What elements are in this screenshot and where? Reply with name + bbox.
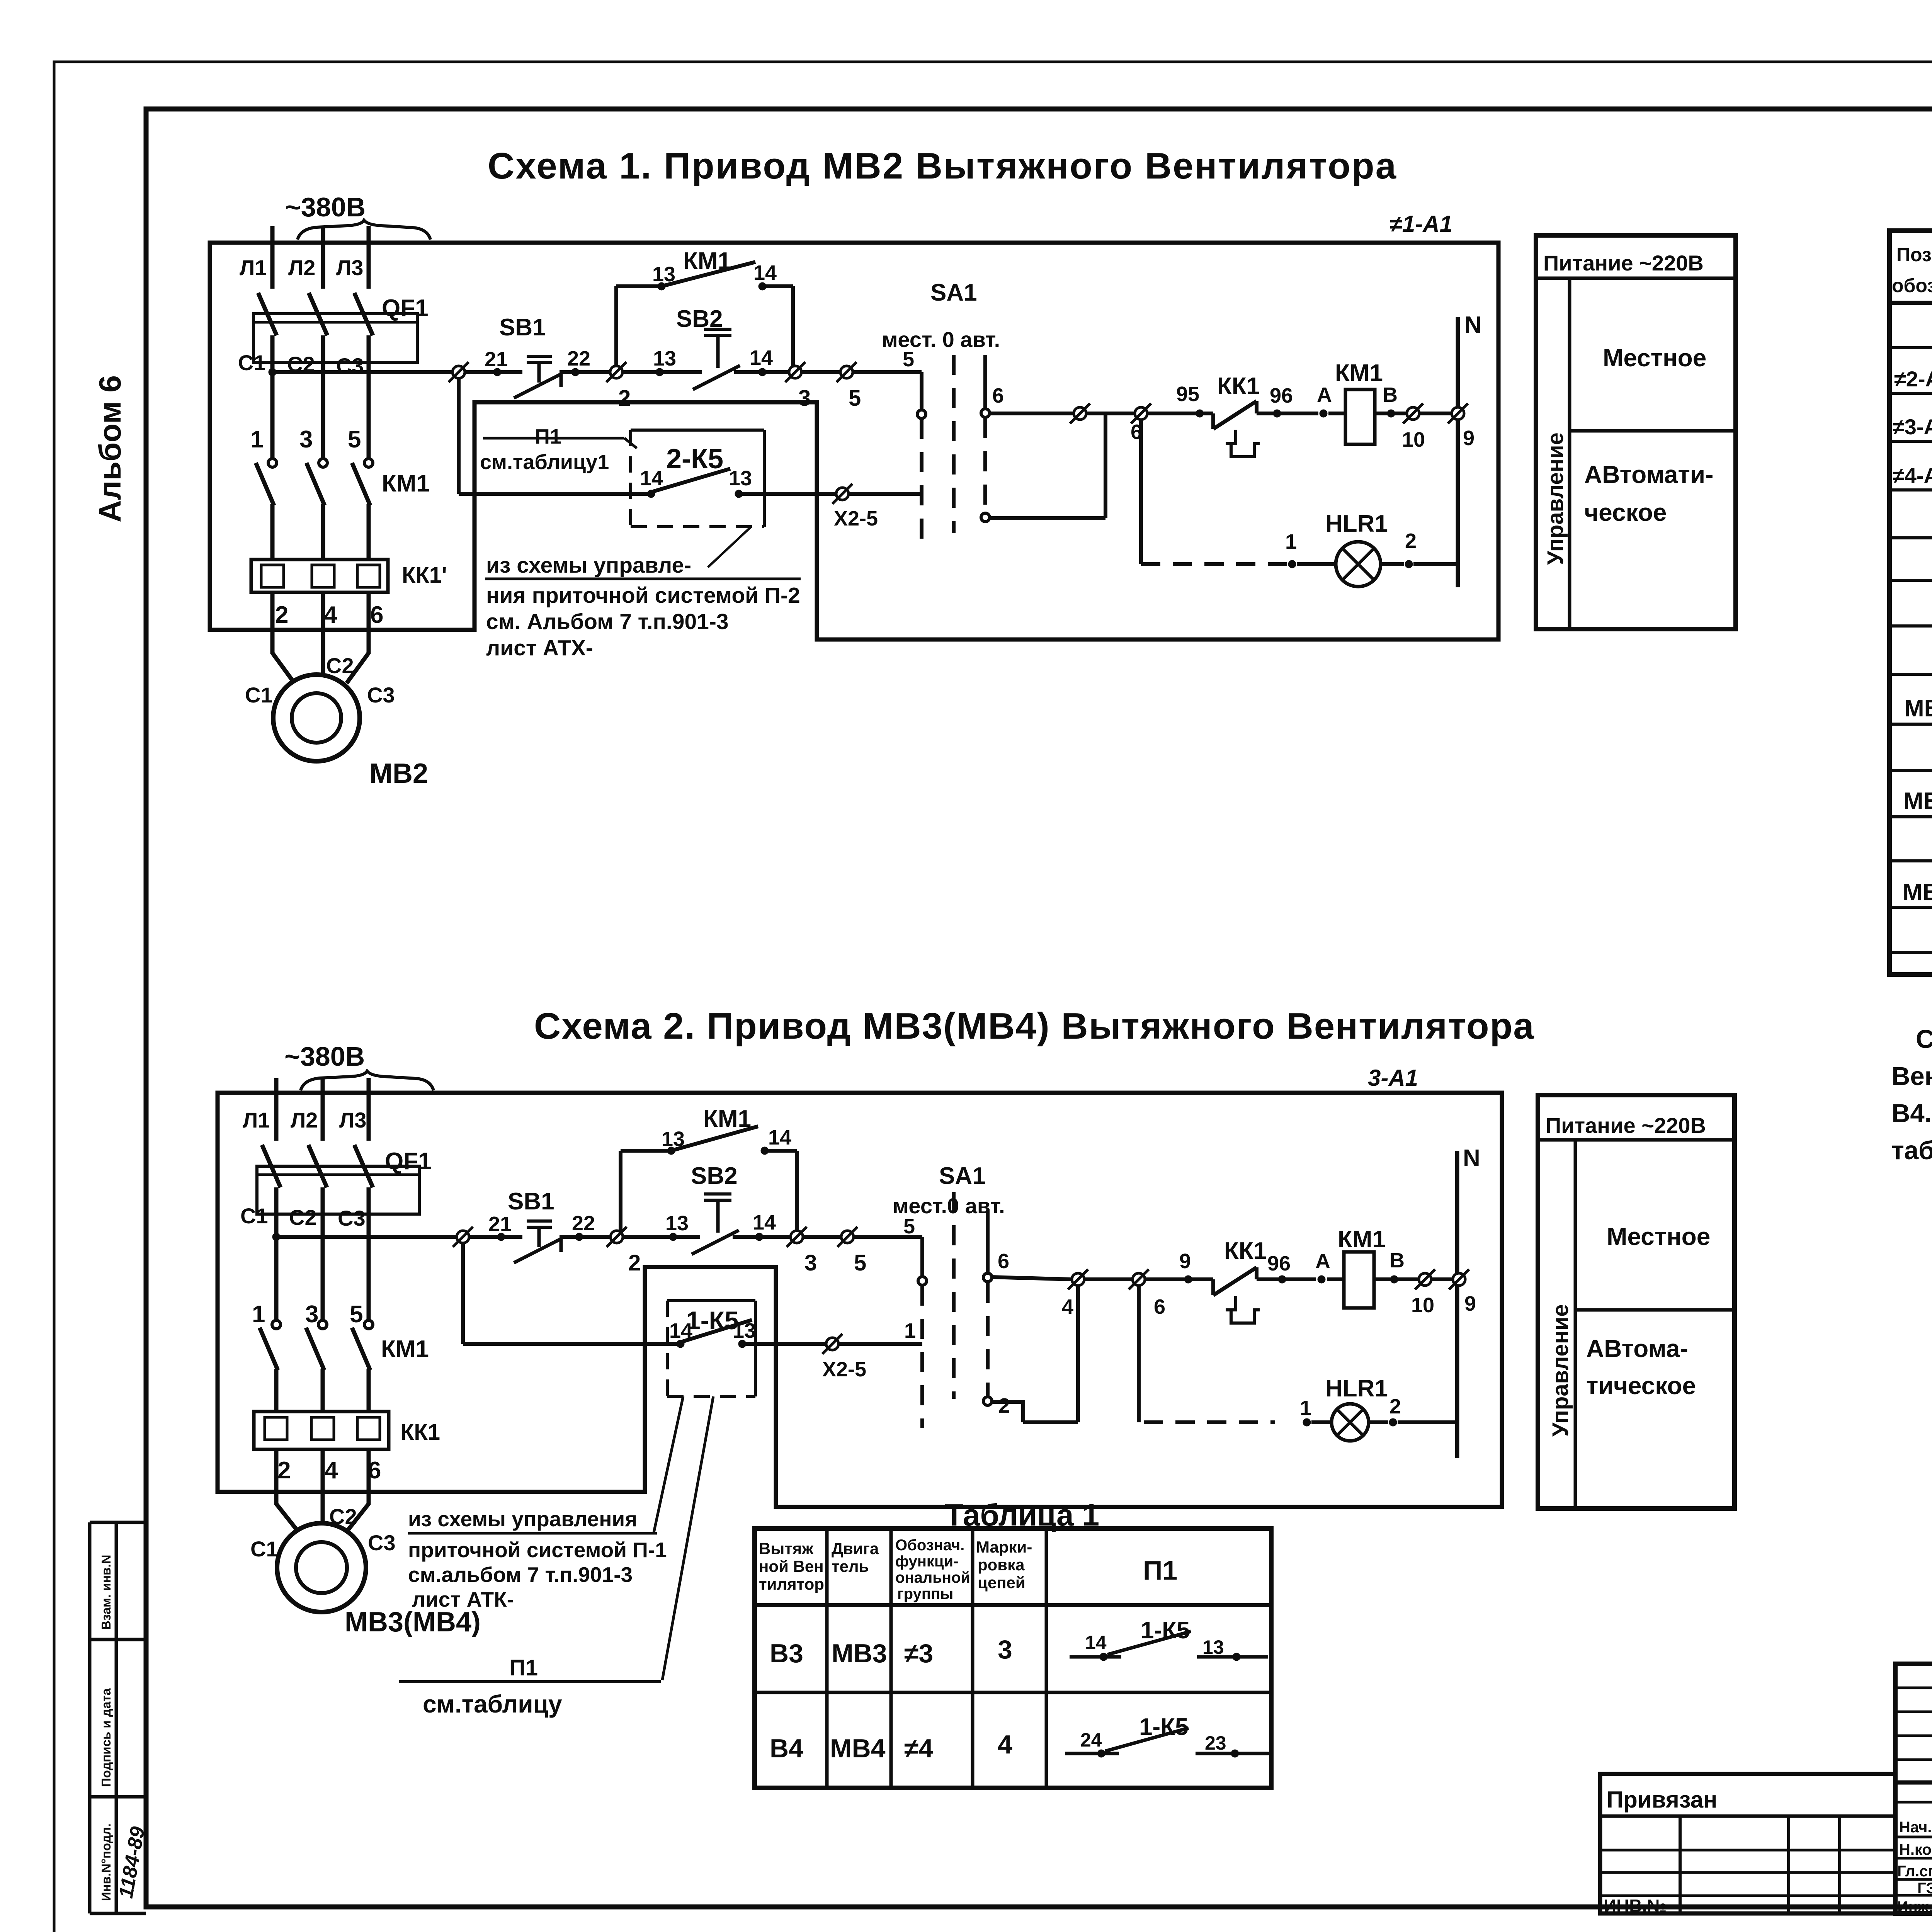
svg-text:10: 10 [1411,1294,1434,1317]
svg-text:4: 4 [998,1730,1012,1759]
svg-text:АВтома-: АВтома- [1586,1335,1688,1362]
svg-text:приточной системой П-1: приточной системой П-1 [408,1538,667,1562]
svg-text:П1: П1 [1143,1555,1177,1585]
svg-text:Обознач.: Обознач. [895,1537,964,1554]
svg-text:из схемы управле-: из схемы управле- [486,553,691,578]
svg-text:14: 14 [768,1126,791,1149]
svg-text:Л1: Л1 [243,1108,270,1132]
svg-text:13: 13 [729,467,752,490]
svg-text:КМ1: КМ1 [1335,360,1383,386]
svg-text:см.альбом 7 т.п.901-3: см.альбом 7 т.п.901-3 [408,1563,633,1587]
svg-text:1: 1 [250,426,264,453]
svg-text:В4. Схема аналогична с изменен: В4. Схема аналогична с изменениями согла… [1891,1099,1932,1128]
svg-text:С1: С1 [245,683,273,707]
svg-text:тическое: тическое [1586,1372,1696,1400]
svg-text:1-К5: 1-К5 [1141,1617,1190,1644]
svg-text:QF1: QF1 [382,295,429,321]
svg-text:В4: В4 [770,1734,803,1763]
svg-text:С3: С3 [368,1531,396,1555]
svg-text:КМ1: КМ1 [381,1336,429,1362]
svg-text:МВ2: МВ2 [1904,695,1932,722]
svg-text:6: 6 [368,1457,381,1484]
svg-text:3: 3 [998,1635,1012,1664]
svg-text:В3: В3 [770,1639,803,1668]
svg-text:1: 1 [1300,1396,1311,1420]
svg-text:1-К5: 1-К5 [1139,1714,1188,1740]
svg-text:≠1-А1: ≠1-А1 [1389,211,1452,237]
svg-text:4: 4 [1062,1295,1073,1318]
svg-text:~380В: ~380В [284,1041,365,1071]
svg-text:1: 1 [252,1301,265,1328]
svg-text:КК1: КК1 [1217,373,1260,400]
svg-text:3-А1: 3-А1 [1368,1065,1418,1091]
svg-text:1: 1 [1285,530,1297,553]
svg-text:В: В [1389,1249,1405,1272]
svg-text:Л1: Л1 [240,255,267,280]
svg-text:21: 21 [488,1213,512,1236]
svg-text:ровка: ровка [978,1556,1025,1574]
svg-text:HLR1: HLR1 [1325,1375,1388,1402]
svg-text:тилятор: тилятор [759,1575,824,1593]
svg-text:см.таблицу1: см.таблицу1 [480,451,609,474]
svg-text:6: 6 [1154,1295,1165,1318]
svg-text:HLR1: HLR1 [1325,510,1388,537]
svg-text:6: 6 [370,602,383,628]
svg-text:ИНВ.№: ИНВ.№ [1604,1896,1667,1916]
svg-text:3: 3 [305,1301,318,1328]
svg-text:ной Вен: ной Вен [759,1557,824,1575]
svg-text:С3: С3 [338,1206,366,1230]
svg-text:13: 13 [662,1128,685,1151]
svg-text:Вентилятора В3, для Вытяжного: Вентилятора В3, для Вытяжного Вентилятор… [1891,1062,1932,1091]
svg-text:SB1: SB1 [499,314,546,341]
svg-text:2: 2 [275,602,288,628]
svg-text:2: 2 [1389,1395,1401,1418]
svg-text:1: 1 [904,1319,916,1342]
svg-text:С2: С2 [289,1205,317,1230]
svg-text:2: 2 [1405,529,1417,553]
svg-text:5: 5 [849,386,861,411]
svg-text:функци-: функци- [895,1553,958,1570]
svg-text:Привязан: Привязан [1607,1787,1717,1813]
svg-text:22: 22 [572,1212,595,1235]
svg-text:SB1: SB1 [508,1188,554,1215]
svg-text:Схема 2: Схема дана для Вытяж: Схема 2: Схема дана для Вытяжного [1916,1025,1932,1054]
svg-text:N: N [1463,1145,1480,1172]
svg-text:2: 2 [618,386,631,411]
svg-text:КК1: КК1 [1224,1238,1267,1264]
svg-text:3: 3 [798,386,811,411]
svg-text:таблице 1: таблице 1 [1891,1136,1932,1165]
svg-text:9: 9 [1463,427,1475,450]
svg-text:SB2: SB2 [676,306,723,332]
svg-text:14: 14 [1085,1632,1107,1653]
svg-text:5: 5 [348,426,361,453]
svg-text:≠3-А1: ≠3-А1 [1893,415,1932,439]
svg-text:4: 4 [325,1457,338,1484]
svg-text:6: 6 [992,384,1004,407]
svg-text:С1: С1 [238,350,266,375]
svg-text:ния приточной системой П-2: ния приточной системой П-2 [486,583,800,608]
svg-text:КМ1: КМ1 [683,248,731,274]
svg-text:3: 3 [299,426,313,453]
svg-text:мест. 0 авт.: мест. 0 авт. [882,327,1000,352]
svg-text:21: 21 [485,348,508,371]
svg-text:QF1: QF1 [385,1148,432,1175]
svg-text:95: 95 [1176,383,1199,406]
svg-text:2: 2 [628,1250,641,1276]
svg-text:Позиц.: Позиц. [1896,244,1932,265]
svg-text:Инж.Ⅱ к: Инж.Ⅱ к [1897,1898,1932,1915]
svg-text:14: 14 [669,1319,692,1342]
svg-text:3: 3 [804,1250,817,1276]
svg-text:цепей: цепей [978,1573,1026,1592]
svg-text:группы: группы [897,1585,953,1602]
svg-text:13: 13 [653,347,676,370]
svg-text:С2: С2 [287,352,315,376]
svg-text:SA1: SA1 [930,279,977,306]
svg-text:Марки-: Марки- [976,1538,1032,1556]
svg-text:В: В [1383,383,1398,406]
svg-text:МВ3: МВ3 [832,1639,887,1668]
svg-text:Схема 2. Привод МВ3(МВ4) Вытя: Схема 2. Привод МВ3(МВ4) Вытяжного Венти… [534,1005,1535,1047]
svg-text:Схема 1. Привод МВ2 Вытяжного: Схема 1. Привод МВ2 Вытяжного Вентилятор… [488,145,1397,187]
svg-text:Управление: Управление [1543,432,1568,565]
svg-text:13: 13 [665,1212,689,1235]
svg-text:6: 6 [998,1250,1009,1273]
svg-text:Л2: Л2 [288,255,315,280]
svg-text:13: 13 [733,1319,756,1342]
svg-text:Управление: Управление [1548,1304,1573,1437]
svg-text:24: 24 [1080,1729,1102,1751]
svg-text:Питание ~220В: Питание ~220В [1543,251,1704,275]
svg-text:4: 4 [324,602,337,628]
svg-text:SA1: SA1 [939,1163,986,1189]
svg-text:9: 9 [1464,1292,1476,1315]
svg-text:ГЭП: ГЭП [1917,1880,1932,1897]
svg-text:Л3: Л3 [336,255,363,280]
svg-text:из схемы управления: из схемы управления [408,1507,637,1531]
svg-text:С3: С3 [336,354,364,378]
svg-text:≠4-А1: ≠4-А1 [1893,463,1932,488]
svg-text:МВ3(МВ4): МВ3(МВ4) [345,1607,481,1638]
svg-text:≠3: ≠3 [904,1639,933,1668]
svg-text:Л2: Л2 [291,1108,318,1132]
svg-text:АВтомати-: АВтомати- [1584,461,1713,488]
svg-text:ональной: ональной [895,1569,970,1586]
svg-text:≠4: ≠4 [904,1734,933,1763]
svg-text:5: 5 [854,1250,866,1276]
svg-text:Инв.N°подл.: Инв.N°подл. [99,1823,113,1901]
svg-text:Х2-5: Х2-5 [834,507,878,530]
svg-text:~380В: ~380В [285,192,366,222]
svg-text:Подпись и дата: Подпись и дата [99,1688,113,1787]
svg-text:5: 5 [350,1301,363,1328]
svg-text:10: 10 [1402,428,1425,451]
svg-text:Х2-5: Х2-5 [822,1358,866,1381]
svg-text:Местное: Местное [1607,1223,1710,1250]
svg-text:96: 96 [1267,1252,1291,1275]
svg-text:Нач.отд: Нач.отд [1899,1819,1932,1836]
svg-text:Н.контр.: Н.контр. [1899,1841,1932,1858]
svg-text:КМ1: КМ1 [703,1105,751,1132]
svg-text:Питание ~220В: Питание ~220В [1546,1113,1706,1138]
svg-text:А: А [1315,1250,1330,1273]
svg-text:≠2-А1: ≠2-А1 [1894,367,1932,391]
svg-text:Вытяж: Вытяж [759,1539,814,1558]
svg-text:13: 13 [1202,1636,1224,1658]
svg-text:КМ1: КМ1 [1338,1226,1386,1253]
svg-text:С1: С1 [250,1537,278,1561]
svg-text:2: 2 [998,1394,1010,1417]
svg-text:5: 5 [903,1215,915,1238]
svg-text:6: 6 [1131,420,1142,444]
svg-text:П1: П1 [535,425,561,448]
svg-text:КК1': КК1' [402,563,447,588]
svg-text:14: 14 [753,261,777,284]
svg-text:14: 14 [750,346,773,369]
svg-text:лист АТХ-: лист АТХ- [486,636,593,660]
svg-text:N: N [1464,312,1482,338]
svg-text:Взам. инв.N: Взам. инв.N [99,1555,113,1630]
svg-text:мест.0 авт.: мест.0 авт. [893,1194,1005,1218]
svg-text:SB2: SB2 [691,1163,738,1189]
svg-text:ческое: ческое [1584,498,1667,526]
svg-text:лист АТК-: лист АТК- [412,1587,514,1611]
svg-text:2: 2 [277,1457,291,1484]
svg-text:А: А [1317,383,1332,406]
svg-text:2-К5: 2-К5 [666,444,723,474]
svg-text:КМ1: КМ1 [382,470,430,497]
svg-text:Двига: Двига [832,1539,879,1558]
svg-text:С1: С1 [240,1204,268,1228]
svg-text:Гл.спец.: Гл.спец. [1897,1863,1932,1880]
svg-text:С2: С2 [326,653,354,678]
svg-text:14: 14 [753,1211,776,1234]
svg-text:Местное: Местное [1603,344,1706,372]
svg-text:23: 23 [1205,1732,1226,1754]
svg-text:МВ4: МВ4 [830,1734,886,1763]
svg-text:13: 13 [652,263,675,286]
svg-text:С3: С3 [367,683,395,707]
svg-text:МВ4: МВ4 [1903,879,1932,906]
svg-text:Л3: Л3 [339,1108,366,1132]
svg-text:КК1: КК1 [400,1420,440,1445]
svg-text:П1: П1 [509,1655,538,1680]
svg-text:МВ2: МВ2 [369,758,428,789]
svg-text:14: 14 [640,467,663,490]
svg-text:см.таблицу: см.таблицу [423,1690,562,1718]
svg-text:тель: тель [832,1557,869,1575]
svg-text:9: 9 [1179,1250,1191,1273]
svg-text:см. Альбом 7 т.п.901-3: см. Альбом 7 т.п.901-3 [486,609,729,634]
svg-text:1-К5: 1-К5 [686,1306,739,1335]
svg-text:С2: С2 [329,1504,357,1529]
svg-text:22: 22 [567,347,590,370]
svg-text:Альбом 6: Альбом 6 [93,375,127,522]
svg-text:обознач.: обознач. [1892,275,1932,296]
svg-text:96: 96 [1270,384,1293,407]
svg-text:МВ3: МВ3 [1903,788,1932,815]
